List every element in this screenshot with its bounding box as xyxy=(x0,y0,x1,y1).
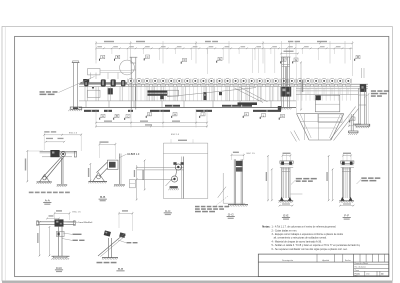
bottom section flag L xyxy=(350,117,355,123)
svg-text:E-E: E-E xyxy=(283,213,288,217)
detail D-D base xyxy=(52,255,70,257)
detail F-F dims xyxy=(343,153,351,154)
svg-text:Plano: Plano xyxy=(355,270,359,272)
caption chapa de cerramiento xyxy=(195,206,200,208)
svg-text:Proyectó y Dibujó: Proyectó y Dibujó xyxy=(355,262,368,265)
tier 2 dimension texts xyxy=(97,46,102,47)
detail F-F base xyxy=(339,200,354,202)
svg-text:F-F: F-F xyxy=(344,213,349,217)
svg-text:E: E xyxy=(219,57,221,61)
right end bench xyxy=(356,89,370,127)
svg-text:M: M xyxy=(357,55,359,59)
detail G-G diagonal xyxy=(218,187,226,198)
left drive shaft xyxy=(80,82,127,84)
detail C-C foot hatch xyxy=(170,186,178,188)
detail B-B base bracket xyxy=(93,173,105,182)
detail C-C rails xyxy=(137,167,184,169)
section flag A xyxy=(100,55,105,61)
head support leg xyxy=(350,114,352,131)
detail D-D dims xyxy=(56,210,62,211)
long rising diagonal xyxy=(167,88,256,97)
detail E-E base dimension xyxy=(280,205,293,207)
detail A-A drive assembly xyxy=(40,151,77,157)
svg-text:C: C xyxy=(127,114,129,118)
drive sheave 4 xyxy=(121,80,125,86)
detail A-A diagonal strut xyxy=(43,157,62,177)
title block header dividers xyxy=(316,254,318,262)
head end brace diagonal 1 xyxy=(330,107,356,140)
detail A-A ground 2 xyxy=(57,184,67,186)
detail C-C left dimension xyxy=(144,160,146,190)
detail F-F cap xyxy=(341,161,354,164)
detail H-H bearing block 1 xyxy=(104,230,111,236)
head drum guide lines xyxy=(361,68,363,78)
right bench hatch xyxy=(356,126,357,128)
head support base hatch xyxy=(349,133,350,135)
bottom section flag J xyxy=(200,112,205,118)
left end guard triangle xyxy=(92,87,94,89)
falling chute diagonal 2 xyxy=(239,87,268,102)
left end pulley dark blob xyxy=(83,79,89,82)
detail G-G frame outline xyxy=(222,173,224,203)
detail A-A title dims xyxy=(44,131,49,132)
title block revision mini columns xyxy=(359,254,361,262)
svg-text:ESC 1:5: ESC 1:5 xyxy=(73,211,82,213)
tower inner guide pair xyxy=(284,67,286,88)
detail G-G leader to caption xyxy=(216,196,228,206)
svg-text:H-H: H-H xyxy=(118,267,124,271)
bottom section flag E xyxy=(146,112,151,118)
section flag M xyxy=(355,55,360,61)
hanging drive block xyxy=(108,88,113,94)
right extension to rollers xyxy=(352,64,354,77)
right rail line 3 xyxy=(296,90,358,92)
svg-text:A: A xyxy=(102,55,104,59)
bottom section flag L1 xyxy=(260,113,265,119)
detail balloon circle xyxy=(120,60,135,75)
left column base hatching xyxy=(69,109,70,111)
svg-text:Esc. de planos: Esc. de planos xyxy=(355,267,366,269)
roller stand light posts xyxy=(128,87,130,101)
detail H-H dims xyxy=(122,210,128,211)
detail A-A vertical dimension xyxy=(26,151,28,182)
detail G-G column xyxy=(234,159,242,204)
svg-text:6.- Se requieren cambiador co: 6.- Se requieren cambiador con las dos v… xyxy=(272,248,348,251)
svg-text:alt. cerramiento y estructuras: alt. cerramiento y estructuras de soldad… xyxy=(274,237,327,240)
svg-text:ESC 1:5: ESC 1:5 xyxy=(69,132,78,134)
detail D-D leader e3 xyxy=(73,234,82,235)
detail E-E column xyxy=(282,168,290,199)
right rail line 2 xyxy=(296,87,368,89)
detail B-B dims xyxy=(100,141,109,142)
svg-text:D-D: D-D xyxy=(56,266,62,270)
detail C-C enclosure rectangle xyxy=(163,143,207,198)
section flag B xyxy=(115,55,120,61)
tier 1 dimension texts xyxy=(104,41,114,42)
bottom dimension line 2 xyxy=(96,125,207,127)
detail H-H column xyxy=(108,238,110,258)
tower base hatch xyxy=(279,108,280,110)
detail C-C bearing plates xyxy=(173,162,176,165)
hopper internal grid xyxy=(300,121,341,123)
svg-text:A1: A1 xyxy=(381,273,383,276)
detail G-G dims xyxy=(233,152,239,153)
detail F-F leader text viga de cerramiento xyxy=(361,177,366,179)
svg-text:L-Canal 80x40x4: L-Canal 80x40x4 xyxy=(76,222,93,224)
shaft support posts xyxy=(91,73,119,80)
svg-text:Fecha: Fecha xyxy=(345,260,352,262)
ground line xyxy=(79,107,296,109)
bottom right dimension extension lines xyxy=(348,115,350,128)
detail E-E dims xyxy=(283,153,291,154)
right rail extension xyxy=(296,94,358,96)
mast at x131 xyxy=(130,57,138,109)
svg-text:E: E xyxy=(149,112,151,116)
truss posts xyxy=(84,87,86,101)
svg-text:K: K xyxy=(246,112,248,116)
detail F-F base dimension xyxy=(340,205,354,207)
detail B-B bearing block xyxy=(108,160,119,169)
bottom section flag H xyxy=(172,112,177,118)
detail F-F vertical dims xyxy=(328,156,330,201)
detail D-D column xyxy=(57,227,59,256)
drive sheave 3 xyxy=(111,79,116,86)
roller rail lower xyxy=(79,86,368,88)
leader note left of column xyxy=(40,77,95,96)
left tall column xyxy=(70,61,82,109)
detail B-B right bracket xyxy=(130,180,136,188)
svg-text:G-G: G-G xyxy=(228,213,234,217)
main view dimension line tier 2 xyxy=(96,47,353,49)
detail F-F braces xyxy=(342,168,350,170)
bottom dimension texts xyxy=(104,121,112,122)
section flag C xyxy=(144,55,149,61)
svg-text:ESC 1:5: ESC 1:5 xyxy=(247,153,256,155)
bottom section flag A xyxy=(100,114,105,120)
svg-text:3.- Espejos como trabajos o e: 3.- Espejos como trabajos o espesores co… xyxy=(272,233,344,236)
drive station dark bars xyxy=(148,90,168,92)
svg-text:ESC 1:5: ESC 1:5 xyxy=(171,134,180,136)
svg-text:1.- A Tol 1.1.7. de columnas: 1.- A Tol 1.1.7. de columnas a el metro … xyxy=(272,226,337,229)
svg-text:1:50: 1:50 xyxy=(366,274,369,276)
carriage dark corner blob xyxy=(316,96,321,101)
sheet binding margin line xyxy=(4,27,6,281)
bearing blob 1 xyxy=(160,95,164,99)
bearing blob 2 vertical bar xyxy=(203,92,206,100)
detail F-F feet xyxy=(341,197,345,201)
equipment caption texts under main view xyxy=(84,110,99,112)
detail H-H strut xyxy=(98,234,124,256)
svg-text:5.- Soldar en calida 3. T.C.B: 5.- Soldar en calida 3. T.C.B y listar e… xyxy=(272,244,361,247)
detail C-C top dim text xyxy=(178,140,187,141)
svg-text:B: B xyxy=(117,55,119,59)
detail A-A motor xyxy=(50,150,59,157)
tower drive dark cluster xyxy=(281,87,291,97)
falling chute diagonal 1 xyxy=(234,88,263,103)
drawing frame xyxy=(15,36,389,276)
detail E-E cap xyxy=(280,161,293,164)
svg-text:H: H xyxy=(174,112,176,116)
detail H-H base xyxy=(102,257,118,259)
detail B-B ground xyxy=(88,180,107,182)
detail C-C lower rail xyxy=(137,178,174,180)
head end drum xyxy=(360,84,366,92)
bearing blob 3 xyxy=(219,92,222,95)
bottom dimension extension lines xyxy=(95,109,97,128)
truss legs to ground xyxy=(85,101,87,108)
detail D-D cross beam xyxy=(37,221,76,223)
truss lower chord xyxy=(79,100,296,102)
detail A-A ground 1 xyxy=(37,181,52,183)
detail B-B ground 2 xyxy=(114,184,125,186)
svg-text:C: C xyxy=(147,55,149,59)
bottom right dimension xyxy=(349,125,369,127)
title block right row dividers xyxy=(364,271,366,276)
left upper frame lines xyxy=(100,70,131,72)
drive sheave 1 xyxy=(84,80,88,87)
detail A-A base bracket xyxy=(40,175,50,182)
detail F-F column xyxy=(342,168,350,199)
carriage chamfer xyxy=(315,95,319,99)
svg-text:B: B xyxy=(116,114,118,118)
right section posts xyxy=(299,88,301,94)
detail G-G top plates xyxy=(236,161,243,166)
roller row xyxy=(128,78,352,86)
B-B right vertical dimension xyxy=(136,165,138,200)
detail A-A caption xyxy=(29,192,34,194)
detail C-C strut xyxy=(176,170,177,176)
dimension extension lines xyxy=(95,41,97,64)
takeup carriage box xyxy=(315,95,340,112)
detail E-E base xyxy=(279,200,294,202)
svg-text:G: G xyxy=(295,58,297,62)
svg-text:Descripción: Descripción xyxy=(282,259,294,262)
detail A-A shaft end cap xyxy=(74,151,76,157)
carriage inner line xyxy=(315,103,340,105)
svg-text:4.- Material de chapas de ace: 4.- Material de chapas de acero laminado… xyxy=(272,240,323,243)
svg-text:Notas:: Notas: xyxy=(262,225,270,229)
detail B-B vertical dimension xyxy=(89,164,91,182)
detail D-D mid clamp xyxy=(57,231,65,236)
svg-text:C-C: C-C xyxy=(165,209,171,213)
detail E-E leader text tubo de cerramiento xyxy=(296,178,302,180)
svg-text:Aprobó: Aprobó xyxy=(322,259,330,262)
detail D-D leader M10 xyxy=(73,240,78,241)
title block outline xyxy=(258,254,389,277)
bottom dimension line 1 xyxy=(96,122,207,124)
svg-text:A: A xyxy=(102,114,104,118)
svg-text:G: G xyxy=(281,114,283,118)
tower foot dark blob xyxy=(278,106,282,111)
detail E-E feet xyxy=(280,197,284,201)
detail H-H caption soporte intermedio xyxy=(97,262,103,264)
svg-text:04-B05 1.0: 04-B05 1.0 xyxy=(127,153,140,156)
section flag F xyxy=(281,58,286,64)
left column base pad xyxy=(73,107,78,109)
detail B-B cone struts xyxy=(97,162,108,173)
detail C-C vertical member xyxy=(183,157,185,199)
tower dimension extension lines xyxy=(252,49,254,74)
detail D-D hub xyxy=(55,219,64,226)
upper equipment captions xyxy=(165,105,180,107)
tier 2 tick drop lines xyxy=(95,48,97,60)
discharge hopper xyxy=(297,114,344,140)
svg-text:2.- Cotas dadas en mm.: 2.- Cotas dadas en mm. xyxy=(272,229,298,232)
head end brace diagonal 2 xyxy=(334,109,359,141)
detail G-G base xyxy=(228,204,248,206)
detail D-D left dims xyxy=(39,222,41,257)
hopper chute leg xyxy=(291,132,297,142)
section flag G xyxy=(293,58,298,64)
svg-text:B-B: B-B xyxy=(100,195,105,199)
carriage lower band xyxy=(318,114,342,122)
detail H-H bearing block 2 xyxy=(119,232,125,238)
detail A-A vertical member xyxy=(60,157,62,184)
detail E-E vertical dims xyxy=(267,156,269,201)
hopper extension line xyxy=(295,64,297,114)
bottom section flag B xyxy=(114,114,119,120)
support tower legs xyxy=(281,57,291,107)
page bottom shadow xyxy=(2,281,393,283)
detail H-H leader xyxy=(127,242,132,243)
main view dimension line tier 1 xyxy=(96,42,353,44)
bottom section flag K xyxy=(243,112,248,118)
bottom section flag G2 xyxy=(279,114,284,120)
chute discharge dark bar xyxy=(238,102,258,105)
title block header row line xyxy=(258,261,389,263)
leader note right end xyxy=(364,90,389,98)
mid extension line xyxy=(207,49,209,75)
title block right rows xyxy=(354,263,389,265)
main view vertical dimension xyxy=(300,62,303,111)
detail B-B vertical member xyxy=(118,154,120,185)
section flag E xyxy=(217,57,222,63)
detail A-A pulley xyxy=(61,152,66,157)
section flag D xyxy=(181,58,186,64)
detail E-E braces xyxy=(282,168,290,170)
bottom section flag C xyxy=(125,114,130,120)
detail C-C roller wheels xyxy=(175,164,181,170)
roller rail top xyxy=(79,83,368,85)
drive sheave 2 xyxy=(101,79,106,86)
drive station coupling xyxy=(168,90,179,96)
left end feed boxes xyxy=(88,69,101,75)
svg-text:D: D xyxy=(184,58,186,62)
tower top dimension xyxy=(281,53,298,55)
